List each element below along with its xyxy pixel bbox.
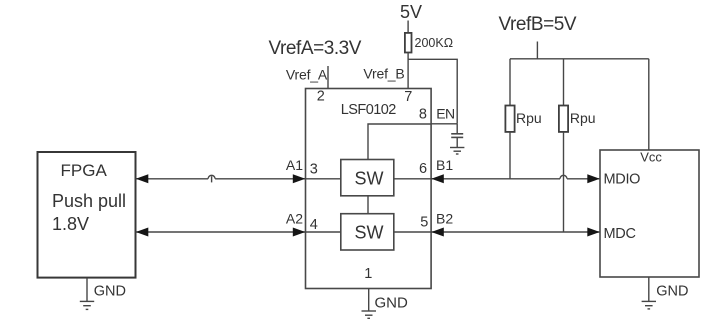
pin 5 label [420,215,428,231]
svg-text:Push pull: Push pull [52,191,126,211]
FPGA box U3 [38,152,136,278]
wire internal A2 [306,231,341,233]
arrowhead A1 right [293,174,306,183]
IC U1 LSF0102 body [306,89,432,289]
wire A1 row FPGA-chip with hop [136,175,306,182]
pin 4 label [310,217,318,233]
wire resistor to pin7 [407,53,409,89]
svg-text:SW: SW [355,169,384,189]
net label B1 [436,157,453,173]
wire internal A1 [306,178,341,180]
wire B1 row chip-PHY with hop [431,175,600,179]
arrowhead B2 left [431,228,444,237]
svg-text:B1: B1 [436,157,453,173]
arrowhead B1 left [431,174,444,183]
svg-text:5: 5 [420,215,428,231]
ground EN cap [450,148,464,155]
wire SW1 to SW2 [367,196,369,214]
svg-text:5V: 5V [400,2,422,22]
svg-text:VrefA=3.3V: VrefA=3.3V [269,38,362,59]
svg-text:Vcc: Vcc [640,150,662,165]
resistor 200KOhm [405,33,453,53]
svg-text:8: 8 [419,106,427,122]
arrowhead A1 left [136,174,149,183]
svg-text:LSF0102: LSF0102 [341,102,396,118]
wire VrefB stub [536,42,538,59]
wire FPGA ground stem [86,278,88,302]
switch SW (lower) [341,214,394,250]
svg-text:B2: B2 [436,211,453,227]
svg-text:GND: GND [375,295,409,312]
ground chip [362,295,409,319]
pin 2 label [317,89,325,105]
svg-text:FPGA: FPGA [61,161,108,180]
svg-text:7: 7 [404,89,412,105]
net label VrefB=5V [499,14,577,35]
node Vref_B label [363,66,404,82]
PHY box U2 [600,150,699,278]
wire branch to EN pullup [408,59,457,124]
pin 7 label [404,89,412,105]
svg-text:1.8V: 1.8V [52,214,89,234]
arrowhead MDIO right [587,174,600,183]
svg-text:3: 3 [310,162,318,178]
svg-text:GND: GND [94,284,126,300]
wire internal B2 [394,231,431,233]
net label VrefA=3.3V [269,38,362,59]
svg-text:Rpu: Rpu [516,110,542,126]
ground PHY [642,284,689,309]
svg-text:6: 6 [419,161,427,177]
svg-text:EN: EN [436,105,454,121]
wire rail to Rpu2 [563,59,565,106]
net label 5V [400,2,422,22]
svg-text:GND: GND [656,284,688,300]
resistor Rpu (left) [505,106,541,132]
svg-text:Rpu: Rpu [570,110,596,126]
node Vref_A pin2 stub [286,66,328,89]
wire chip ground stem [368,289,370,312]
wire B2 row chip-PHY [431,231,600,233]
svg-text:Vref_A: Vref_A [286,67,328,83]
wire EN net [431,123,457,125]
wire VrefB rail [510,58,649,60]
svg-text:A1: A1 [286,157,303,173]
svg-text:SW: SW [355,223,384,243]
wire Rpu1 to MDIO [509,132,511,179]
switch SW (upper) [341,160,394,196]
svg-text:2: 2 [317,89,325,105]
wire rail to Rpu1 [509,59,511,106]
svg-text:MDIO: MDIO [604,172,641,188]
svg-text:VrefB=5V: VrefB=5V [499,14,577,35]
wire PHY ground stem [648,277,650,301]
svg-text:4: 4 [310,217,318,233]
arrowhead A2 right [293,228,306,237]
pin 1 label [364,266,372,282]
svg-text:1: 1 [364,266,372,282]
arrowhead A2 left [136,228,149,237]
svg-text:Vref_B: Vref_B [363,66,404,82]
net label A2 [286,211,303,227]
pin 8 label [419,106,427,122]
wire A2 row FPGA-chip [136,231,306,233]
svg-text:A2: A2 [286,211,303,227]
svg-text:MDC: MDC [604,226,636,242]
capacitor C1 on EN [451,124,463,148]
wire Rpu2 to MDC [563,132,565,232]
wire internal EN to SW1 [368,124,431,160]
pin 6 label [419,161,427,177]
ground FPGA [80,284,126,310]
wire internal B1 [394,178,431,180]
net label B2 [436,211,453,227]
resistor Rpu (right) [559,106,596,132]
wire 5V to resistor [407,21,409,33]
arrowhead MDC right [587,228,600,237]
pin 3 label [310,162,318,178]
svg-text:200KΩ: 200KΩ [415,36,454,50]
net label A1 [286,157,303,173]
wire rail to Vcc [648,59,650,150]
net label EN [436,105,454,121]
